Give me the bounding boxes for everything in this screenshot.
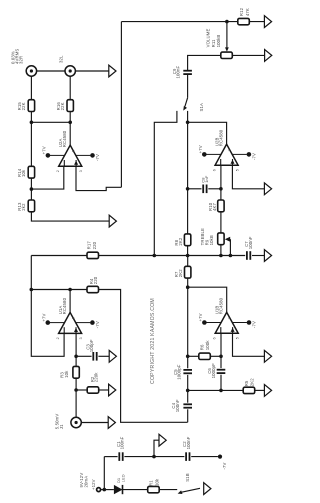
- arrow pot out: [265, 50, 272, 62]
- op-amp U2A non-inverting input marker: [74, 161, 78, 165]
- power input terminal J2: [97, 488, 101, 492]
- wire R3 bottom to node: [75, 378, 77, 390]
- wire U1A output: [69, 290, 71, 313]
- resistor R7: [185, 266, 191, 278]
- net flag stub up from power rail: [154, 440, 160, 456]
- svg-text:220: 220: [92, 241, 97, 249]
- wire R1 to switch S1B: [159, 489, 177, 491]
- wire net287 down to C5 and C4 chain: [187, 287, 189, 368]
- op-amp U2A input pin stubs: [63, 160, 65, 166]
- wire R2 to arrow: [99, 389, 109, 391]
- svg-text:100nF: 100nF: [186, 436, 191, 449]
- treble net wire y255: [31, 255, 245, 257]
- svg-text:2K2: 2K2: [250, 378, 255, 386]
- svg-text:RC4580: RC4580: [219, 297, 224, 314]
- capacitor C6: [217, 369, 226, 371]
- wire pot R11 left to C9: [188, 55, 222, 70]
- svg-text:2K2: 2K2: [178, 237, 183, 245]
- arrow R12 out: [264, 16, 271, 28]
- svg-text:LED: LED: [120, 474, 125, 482]
- svg-text:5: 5: [236, 169, 240, 171]
- svg-text:-7V: -7V: [252, 321, 257, 328]
- wire R9 bottom to treble net: [220, 245, 222, 256]
- capacitor C7: [246, 251, 248, 260]
- potentiometer R11 volume: [221, 52, 233, 58]
- svg-text:100nF: 100nF: [248, 236, 253, 249]
- svg-text:R6: R6: [199, 344, 204, 350]
- wire U2B pin6 down to node: [220, 165, 222, 189]
- svg-text:32R: 32R: [19, 56, 24, 64]
- op-amp U1A input pin stubs: [63, 327, 65, 333]
- power rail wire to -7V: [104, 456, 117, 458]
- svg-text:1000pF: 1000pF: [211, 363, 216, 379]
- svg-text:10k: 10k: [21, 169, 26, 177]
- wire R7 top from treble net: [187, 256, 189, 267]
- wire R15 bottom: [30, 111, 32, 122]
- diode D1: [114, 485, 123, 494]
- svg-text:100pF: 100pF: [89, 339, 94, 352]
- op-amp U2B -7V power pin: [232, 153, 247, 155]
- svg-text:+12V: +12V: [91, 479, 96, 490]
- wire C7 to arrow: [252, 255, 265, 257]
- arrow C3 out: [109, 350, 116, 362]
- op-amp U1B input pin stubs: [220, 327, 222, 333]
- output jack 32R: [26, 66, 36, 76]
- svg-text:1: 1: [72, 150, 76, 152]
- svg-text:R5: R5: [244, 380, 249, 386]
- wire jog bus to U2A pin3: [76, 166, 121, 190]
- svg-text:J1: J1: [59, 424, 64, 429]
- svg-text:+7V: +7V: [41, 313, 46, 321]
- op-amp U2A triangle: [59, 145, 82, 166]
- wire R16 bottom: [69, 111, 71, 122]
- resistor R4: [87, 286, 99, 292]
- resistor R2: [87, 387, 99, 393]
- arrow to amp input: [109, 65, 116, 77]
- svg-text:3: 3: [79, 337, 83, 339]
- wire U1A feedback to pin2: [31, 290, 64, 357]
- op-amp U1A non-inverting input marker: [74, 328, 78, 332]
- op-amp U1A +7V power pin: [50, 322, 65, 324]
- wire net390 from C5 to R5: [188, 389, 244, 391]
- resistor R12: [238, 18, 250, 24]
- op-amp U2A -7V power pin: [76, 154, 91, 156]
- svg-text:-7V: -7V: [95, 154, 100, 161]
- svg-text:1000pF: 1000pF: [177, 364, 182, 380]
- wire node down to jack J1: [75, 390, 77, 417]
- wire U2A pin2 to R14 node: [31, 166, 63, 189]
- svg-text:2K2: 2K2: [178, 269, 183, 277]
- wire U1A out net to R4: [31, 289, 87, 291]
- op-amp U1B -7V power pin: [232, 322, 247, 324]
- resistor R3: [73, 366, 79, 378]
- wire J2 terminal to junction: [101, 489, 114, 491]
- op-amp U2B +7V power pin: [206, 153, 221, 155]
- op-amp U1B non-inverting input marker: [231, 328, 235, 332]
- wire C3 to arrow: [98, 355, 109, 357]
- wire C6 bottom to net390: [220, 375, 222, 391]
- wire pin6 node west to C8: [188, 188, 202, 190]
- wire R13 bottom to arrow: [31, 212, 109, 221]
- wire R7 bottom to net287: [187, 278, 189, 287]
- switch S1A blade: [185, 98, 188, 107]
- resistor R1: [148, 486, 160, 492]
- capacitor C9: [183, 70, 192, 72]
- wire jack R lead to R16: [69, 76, 71, 100]
- svg-text:2: 2: [56, 337, 60, 339]
- op-amp U2B triangle: [215, 144, 238, 165]
- op-amp U1A -7V power pin: [75, 322, 90, 324]
- svg-text:220k: 220k: [94, 372, 99, 383]
- svg-text:2k2: 2k2: [21, 203, 26, 211]
- svg-text:1nF: 1nF: [204, 175, 209, 183]
- capacitor C5: [183, 369, 192, 371]
- svg-text:20mA: 20mA: [84, 476, 89, 488]
- wire R4 to lower bus corner to C4: [98, 290, 187, 423]
- wire C8 to pin6 node: [208, 188, 221, 190]
- op-amp U1A triangle: [59, 312, 82, 333]
- wire J1 to arrow: [81, 422, 108, 424]
- svg-text:10k: 10k: [154, 478, 159, 486]
- svg-text:R17: R17: [87, 241, 92, 250]
- arrow S1B out: [204, 483, 211, 495]
- svg-text:47K: 47K: [245, 8, 250, 16]
- arrow U2B pin5: [264, 183, 271, 195]
- svg-text:RC4580: RC4580: [62, 297, 67, 314]
- arrow R2 out: [109, 384, 116, 396]
- resistor R8: [184, 234, 190, 246]
- svg-text:10kB: 10kB: [209, 235, 214, 245]
- wire vertical bus left: [120, 22, 122, 188]
- svg-text:+7V: +7V: [42, 146, 47, 154]
- wire node to R2: [76, 389, 87, 391]
- wire jack2 to input arrow: [75, 70, 109, 72]
- svg-text:5: 5: [236, 337, 240, 339]
- svg-text:7: 7: [228, 317, 232, 319]
- wire node west through R6: [188, 355, 199, 357]
- svg-text:100k: 100k: [205, 340, 210, 351]
- svg-text:2: 2: [56, 170, 60, 172]
- op-amp U1B +7V power pin: [207, 322, 222, 324]
- wire output net y122 connecting R15 R16 U2A out: [31, 121, 70, 123]
- arrow U1B pin5 out: [264, 350, 271, 362]
- capacitor C4: [183, 403, 192, 405]
- wire U1A pin3 down: [75, 333, 77, 366]
- wire D1 to R1: [123, 489, 148, 491]
- capacitor C3: [92, 352, 94, 361]
- svg-text:7: 7: [228, 149, 232, 151]
- svg-text:+7V: +7V: [198, 313, 203, 321]
- wire pin3 node to C3: [76, 355, 92, 357]
- potentiometer R9 treble: [218, 233, 224, 245]
- wire R14 top from net122: [30, 122, 32, 166]
- resistor R16: [67, 100, 73, 112]
- wire node to R10 top: [220, 189, 222, 200]
- capacitor C1: [118, 452, 120, 461]
- wire U1B output up to net287: [188, 287, 227, 313]
- svg-text:RC4580: RC4580: [218, 129, 223, 146]
- op-amp U1B triangle: [215, 312, 238, 333]
- svg-text:3: 3: [79, 170, 83, 172]
- capacitor C2: [185, 452, 187, 461]
- wire treble net down left side: [30, 256, 32, 290]
- wire U2A output to net: [69, 122, 71, 145]
- arrow C7 out: [264, 250, 271, 262]
- wire power input up to rail: [103, 457, 105, 490]
- svg-text:4K7: 4K7: [212, 203, 217, 211]
- resistor R5: [243, 387, 255, 393]
- svg-text:+7V: +7V: [198, 145, 203, 153]
- wire pin6 node down to C6: [220, 356, 222, 368]
- output jack 32L: [65, 66, 75, 76]
- wire pot wiper drop: [226, 22, 228, 51]
- capacitor C8: [202, 185, 204, 194]
- wire R10 bottom to pot R9: [220, 212, 222, 233]
- resistor R15: [28, 100, 34, 112]
- svg-text:100nF: 100nF: [175, 399, 180, 412]
- terminal -7V: [218, 455, 222, 459]
- resistor R10: [218, 200, 224, 212]
- svg-text:1: 1: [71, 317, 75, 319]
- junction dots: [225, 20, 229, 24]
- net flag arrow up: [159, 434, 166, 446]
- svg-text:R12: R12: [239, 7, 244, 16]
- svg-text:COPYRIGHT 2021 KAAMOS.COM: COPYRIGHT 2021 KAAMOS.COM: [150, 298, 156, 384]
- wire S1A lower terminal down to R8 chain: [187, 111, 189, 234]
- svg-text:R1: R1: [149, 480, 154, 486]
- svg-text:RC4580: RC4580: [62, 130, 67, 147]
- wire R9 wiper to treble net: [229, 239, 231, 255]
- svg-text:22K: 22K: [60, 102, 65, 110]
- svg-text:100nF: 100nF: [175, 65, 180, 78]
- svg-text:22K: 22K: [21, 102, 26, 110]
- svg-text:-7V: -7V: [95, 321, 100, 328]
- arrow R5 out: [264, 385, 271, 397]
- svg-text:S1B: S1B: [185, 473, 190, 481]
- wire U1B pin5 to arrow: [233, 333, 265, 356]
- wire R5 to arrow: [255, 389, 265, 391]
- switch S1B blade: [181, 488, 200, 492]
- wire R8 bottom to treble net: [187, 246, 189, 256]
- wire R14 bottom to R13 top: [30, 178, 32, 200]
- svg-text:6: 6: [213, 337, 217, 339]
- svg-text:-7V: -7V: [222, 462, 227, 469]
- wire C9 bottom to switch S1A: [187, 74, 189, 98]
- svg-text:100kB: 100kB: [216, 35, 221, 48]
- op-amp U2A +7V power pin: [50, 154, 65, 156]
- input jack J1: [71, 417, 81, 427]
- resistor R17: [87, 252, 99, 258]
- svg-text:-7V: -7V: [252, 153, 257, 160]
- arrow J1 out: [108, 417, 115, 429]
- switch S1A left contact stub to treble net: [154, 111, 177, 256]
- arrow R13 out: [109, 215, 116, 227]
- wire S1A node east to U2B output: [188, 122, 227, 144]
- svg-text:10k: 10k: [64, 370, 69, 378]
- svg-text:100nF: 100nF: [120, 436, 125, 449]
- svg-text:6: 6: [213, 169, 217, 171]
- wire pot R11 right to output arrow: [232, 54, 265, 56]
- wire U1B pin6 to node: [220, 333, 222, 356]
- op-amp U2B input pin stubs: [220, 159, 222, 165]
- op-amp U2B non-inverting input marker: [231, 160, 235, 164]
- svg-text:32L: 32L: [59, 55, 64, 63]
- wire top net from bus to R12 and pot wiper: [121, 21, 264, 23]
- svg-text:S1A: S1A: [199, 103, 204, 111]
- wire U2B pin5 to arrow: [232, 165, 264, 189]
- wire jack L lead to R15: [30, 76, 32, 100]
- resistor R6: [199, 353, 211, 359]
- wire between output jacks: [37, 70, 65, 72]
- resistor R13: [28, 200, 34, 212]
- svg-text:220: 220: [93, 276, 98, 284]
- resistor R14: [28, 166, 34, 178]
